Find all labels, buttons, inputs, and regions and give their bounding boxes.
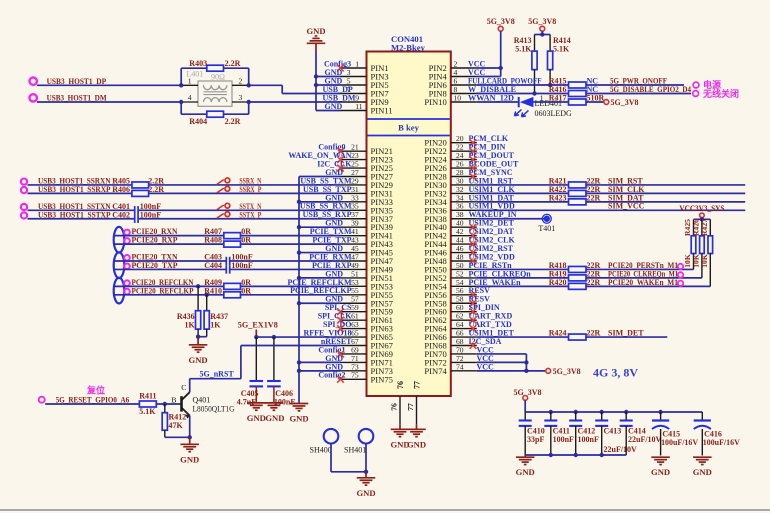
svg-text:2.2R: 2.2R — [148, 185, 164, 194]
svg-text:PIN74: PIN74 — [424, 366, 447, 376]
net label VCC pin4 — [468, 68, 486, 77]
wire VCC pins 70-74 — [477, 354, 546, 371]
differential pair marker SSTX_N — [217, 203, 230, 209]
junction VCC pin2 — [499, 66, 503, 70]
net label USIM1_RST pin30 — [469, 176, 514, 185]
resistor R426 — [691, 219, 704, 278]
pin stub 68 — [451, 345, 477, 347]
resistor R409 — [204, 278, 251, 290]
net label Config0 pin21 — [318, 143, 345, 152]
no-connect X pin24 — [470, 156, 477, 163]
junction GND bus row 39 — [297, 225, 301, 229]
port PCIE20_TXP — [124, 261, 177, 270]
wire pullup top bus — [535, 34, 551, 36]
port ring 5G_DISABLE_GPIO2_D4 — [693, 91, 699, 97]
junction GND bus row 45 — [297, 250, 301, 254]
net label RFFE_VIO18 pin65 — [304, 328, 352, 337]
pin stub 66 — [451, 336, 477, 338]
wire VCC pin2-pin4 — [477, 68, 501, 77]
svg-text:1K: 1K — [210, 321, 221, 330]
net label PCIE_TXP pin43 — [312, 236, 351, 245]
svg-text:5G_3V8: 5G_3V8 — [611, 98, 639, 107]
pin number 6 — [454, 76, 458, 85]
pin number 54 — [456, 278, 464, 287]
svg-text:0R: 0R — [241, 286, 251, 295]
pin stub 67 — [341, 345, 367, 347]
pin stub 3 — [341, 76, 367, 78]
wire SH401 to GND — [365, 443, 367, 472]
pin name PIN34 — [424, 197, 447, 207]
no-connect X pin42 — [470, 232, 477, 239]
pin name PIN23 — [371, 155, 393, 165]
pin stub 57 — [341, 302, 367, 304]
no-connect X pin58 — [470, 300, 477, 307]
no-connect X pin62 — [470, 317, 477, 324]
svg-text:22uF/10V: 22uF/10V — [628, 435, 662, 444]
svg-text:77: 77 — [413, 381, 422, 389]
wire USB3_HOST1_SSTXN row — [28, 209, 341, 211]
pin name PIN57 — [371, 298, 394, 308]
wire SIM_DET — [586, 336, 667, 338]
differential pair marker SSRX_N — [217, 178, 230, 184]
junction C405 top — [254, 335, 258, 339]
pin name PIN25 — [371, 163, 393, 173]
wire GND pin11 — [316, 110, 341, 112]
net label GND pin5 — [325, 76, 343, 85]
net label SPI_CLK pin61 — [318, 312, 353, 321]
junction base R412 — [163, 402, 167, 406]
pin stub 31 — [341, 192, 367, 194]
pin number 21 — [351, 143, 359, 152]
pin number 66 — [456, 328, 464, 337]
no-connect X pin40 — [470, 224, 477, 231]
wire GND pin33 — [299, 201, 341, 203]
power 5G_3V8 at pin74 — [546, 367, 581, 376]
net label PCIE_CLKREQn pin52 — [469, 269, 532, 278]
junction R436 bottom — [196, 335, 200, 339]
svg-text:T401: T401 — [538, 224, 555, 233]
connector CON401 M2-Bkey body — [367, 52, 451, 397]
svg-text:SIM_VCC: SIM_VCC — [608, 202, 645, 211]
pin number 69 — [351, 345, 359, 354]
wire R412 to emitter — [165, 436, 190, 438]
svg-text:5G_RESET_GPIO0_A6: 5G_RESET_GPIO0_A6 — [56, 395, 130, 404]
svg-text:0603LEDG: 0603LEDG — [535, 109, 573, 118]
svg-text:75: 75 — [351, 371, 359, 380]
pin stub 21 — [341, 150, 367, 152]
pin stub 58 — [451, 302, 477, 304]
svg-text:4G 3, 8V: 4G 3, 8V — [593, 366, 638, 380]
connector CON401 value M2-Bkey — [391, 43, 426, 53]
pin stub 54 — [451, 285, 477, 287]
svg-text:100uF/16V: 100uF/16V — [661, 438, 698, 447]
net label SSTX_P — [239, 210, 261, 219]
pin name 77 rotated — [413, 381, 422, 389]
junction bottom rail 575.7 — [574, 453, 578, 457]
power GND symbol SH — [356, 472, 375, 498]
pin name PIN4 — [429, 72, 448, 82]
resistor R421 — [549, 176, 601, 188]
junction choke right top — [247, 83, 251, 87]
pin stub 26 — [451, 167, 477, 169]
svg-text:C404: C404 — [204, 261, 222, 270]
resistor R416 — [549, 85, 586, 97]
wire FULLCARD_POWOFF — [477, 84, 569, 86]
twisted pair ellipse REFCLK — [114, 278, 125, 304]
pin number 43 — [351, 236, 359, 245]
net label PCIE20_CLKREQn_M1 — [608, 269, 678, 278]
pin number 73 — [351, 362, 359, 371]
wire GND pin71 — [299, 361, 341, 363]
pin number 60 — [456, 303, 464, 312]
sheet border bottom line — [0, 509, 770, 511]
pin number 2 — [454, 59, 458, 68]
svg-text:5G_3V8: 5G_3V8 — [487, 17, 515, 26]
annotation dianyuan — [703, 79, 721, 90]
capacitor C414 — [620, 410, 662, 455]
pin stub 59 — [341, 311, 367, 313]
net label PCIE_RXM pin47 — [309, 252, 352, 261]
choke pin number 4 — [188, 93, 192, 102]
power GND symbol C406 — [265, 386, 285, 423]
net label USB_SS_TXP pin31 — [303, 185, 352, 194]
no-connect X pin44 — [470, 241, 477, 248]
pin stub 51 — [341, 277, 367, 279]
wire PCIE20_CLKREQn_M1 — [586, 277, 702, 279]
pin stub 4 — [451, 76, 477, 78]
wire GND pin45 — [299, 252, 341, 254]
no-connect X pin21 — [337, 148, 344, 155]
net label PCIE_REFCLKP pin55 — [290, 286, 351, 295]
power 5G_3V8 symbol A — [487, 17, 515, 68]
net label USIM2_VDD pin48 — [469, 252, 515, 261]
pin name PIN37 — [371, 214, 394, 224]
LED401 designator — [535, 99, 563, 108]
pin stub 22 — [451, 150, 477, 152]
pin stub 36 — [451, 209, 477, 211]
pin number 68 — [456, 337, 464, 346]
power 5G_3V8 symbol B — [528, 17, 556, 34]
pin number 51 — [351, 269, 359, 278]
pin number 77 rotated — [406, 403, 415, 411]
pin stub 70 — [451, 353, 477, 355]
svg-text:SH401: SH401 — [344, 445, 366, 454]
wire GND pin27 — [299, 176, 341, 178]
svg-text:100uF/16V: 100uF/16V — [703, 438, 740, 447]
wire SIM_CLK — [586, 192, 745, 194]
wire SH400 to GND — [331, 443, 366, 472]
port USB3_HOST1_SSRXN — [21, 176, 111, 185]
svg-text:10K: 10K — [700, 254, 709, 268]
pin name PIN69 — [371, 349, 393, 359]
wire GND pin51 — [299, 277, 341, 279]
resistor R407 — [204, 227, 251, 239]
net label FULLCARD_POWOFF — [468, 76, 542, 85]
pin name PIN70 — [424, 349, 446, 359]
pin stub 11 — [341, 110, 367, 112]
pin stub 30 — [451, 184, 477, 186]
pin number 62 — [456, 312, 464, 321]
pin name PIN67 — [371, 341, 394, 351]
annotation 4G 3.8V — [593, 366, 638, 380]
power GND symbol C415 — [651, 457, 670, 477]
pin number 50 — [456, 261, 464, 270]
wire USB3_HOST1_SSRXN row — [28, 184, 341, 186]
pin number 59 — [351, 303, 359, 312]
pin name PIN53 — [371, 281, 393, 291]
resistor R418 — [549, 261, 601, 273]
svg-text:22uF/10V: 22uF/10V — [604, 445, 638, 454]
no-connect X pin68 — [470, 342, 477, 349]
wire cap bank bottom rail — [525, 454, 626, 456]
wire R411 to base — [156, 403, 181, 405]
net label WWAN_12D — [468, 93, 514, 102]
pin number 55 — [351, 286, 359, 295]
resistor R403 bypass wire — [181, 68, 249, 85]
pin stub 5 — [341, 84, 367, 86]
svg-text:5.1K: 5.1K — [553, 45, 570, 54]
svg-text:3: 3 — [239, 93, 243, 102]
net label VCC pin72 — [477, 354, 495, 363]
pin number 24 — [456, 151, 464, 160]
pin number 7 — [347, 85, 351, 94]
net label USB_SS_RXM pin35 — [300, 202, 352, 211]
svg-text:22R: 22R — [587, 278, 601, 287]
wire PCIE20_PERSTn_M1 — [586, 268, 694, 270]
pin name PIN64 — [424, 324, 447, 334]
net label I2C_SDA pin68 — [469, 337, 502, 346]
net label SPI_DIN pin60 — [469, 303, 500, 312]
svg-text:1: 1 — [188, 77, 192, 86]
svg-text:R420: R420 — [549, 278, 567, 287]
pin number 5 — [347, 76, 351, 85]
pin stub 6 — [451, 84, 477, 86]
pin number 38 — [456, 210, 464, 219]
pin stub 69 — [341, 353, 367, 355]
svg-text:GND: GND — [693, 467, 712, 477]
net label SPI_CS pin59 — [325, 303, 352, 312]
pin number 9 — [355, 93, 359, 102]
svg-text:5G_3V8: 5G_3V8 — [528, 17, 556, 26]
pin name PIN9 — [371, 97, 389, 107]
pin name PIN36 — [424, 205, 447, 215]
pin number 37 — [351, 210, 359, 219]
capacitor C416 — [694, 412, 740, 456]
pin stub 64 — [451, 328, 477, 330]
power 5G_3V8 cap bank — [514, 388, 542, 412]
annotation wuxianguanbi — [702, 88, 739, 99]
wire GND bus lower vertical — [298, 177, 300, 403]
svg-text:1: 1 — [540, 93, 544, 102]
capacitor C411 — [544, 410, 574, 455]
pin name PIN24 — [424, 155, 447, 165]
svg-text:74: 74 — [456, 362, 464, 371]
net label SSTX_N — [239, 202, 261, 211]
pin stub 9 — [341, 101, 367, 103]
pin number 33 — [351, 193, 359, 202]
capacitor C402 — [112, 210, 161, 223]
capacitor C413 — [595, 410, 637, 455]
pin name PIN48 — [424, 256, 446, 266]
wire W_DISBALE — [477, 93, 569, 95]
junction GND bus row 73 — [297, 369, 301, 373]
no-connect X pin46 — [470, 249, 477, 256]
pin name PIN75 — [371, 374, 393, 384]
pin stub 27 — [341, 176, 367, 178]
pin number 46 — [456, 244, 464, 253]
no-connect X pin61 — [337, 317, 344, 324]
wire GND pin39 — [299, 226, 341, 228]
svg-text:R404: R404 — [189, 117, 207, 126]
net label SSRX_P — [239, 185, 261, 194]
net label SIM_DAT — [608, 193, 644, 202]
pin name PIN62 — [424, 315, 446, 325]
pin number 25 — [351, 159, 359, 168]
svg-text:VCC3V3_SYS: VCC3V3_SYS — [679, 204, 724, 213]
pin number 71 — [351, 354, 359, 363]
pin stub 53 — [341, 285, 367, 287]
svg-text:R403: R403 — [189, 59, 207, 68]
pin name PIN29 — [371, 180, 393, 190]
net label USIM2_DET pin40 — [469, 219, 515, 228]
no-connect X pin1 — [337, 65, 344, 72]
svg-text:100nF: 100nF — [140, 210, 161, 219]
junction pullup bus — [540, 32, 544, 36]
pin stub 7 — [341, 93, 367, 95]
port 5G_RESET_GPIO0_A6 — [39, 395, 130, 404]
power GND symbol pin76 — [390, 424, 409, 449]
svg-text:L8050QLT1G: L8050QLT1G — [193, 405, 235, 414]
pin number 72 — [456, 354, 464, 363]
wire PCIE20_RXN row — [114, 235, 341, 237]
svg-text:GND: GND — [325, 102, 343, 111]
svg-text:GND: GND — [189, 355, 208, 365]
pin stub 72 — [451, 361, 477, 363]
svg-text:5G_DISABLE_GPIO2_D4: 5G_DISABLE_GPIO2_D4 — [610, 85, 691, 94]
pin number 47 — [351, 252, 359, 261]
wire SIM_RST — [586, 184, 745, 186]
port PCIE20_REFCLKN — [124, 278, 193, 287]
no-connect X pin26 — [470, 165, 477, 172]
pin name PIN44 — [424, 239, 447, 249]
pin number 61 — [351, 312, 359, 321]
pin name PIN3 — [371, 72, 389, 82]
no-connect X pin23 — [337, 156, 344, 163]
junction choke right bottom — [247, 100, 251, 104]
net label VCC pin2 — [468, 59, 486, 68]
power GND symbol C416 — [693, 457, 712, 477]
port ring PCIE20_PERSTn_M1 — [678, 264, 683, 269]
svg-text:GND: GND — [516, 467, 535, 477]
pin name PIN45 — [371, 248, 393, 258]
no-connect X pin48 — [470, 258, 477, 265]
pin stub 29 — [341, 184, 367, 186]
pin number 65 — [351, 328, 359, 337]
differential pair marker SSRX_P — [217, 186, 230, 192]
net label RESV pin56 — [469, 286, 491, 295]
net label PCIE20_WAKEn_M1 — [608, 278, 678, 287]
pin stub 49 — [341, 268, 367, 270]
pin number 56 — [456, 286, 464, 295]
svg-text:2.2R: 2.2R — [225, 117, 241, 126]
power GND symbol R436 R437 — [189, 337, 208, 365]
net label PCM_DIN pin22 — [469, 143, 506, 152]
pin name PIN40 — [424, 222, 446, 232]
pin stub 47 — [341, 260, 367, 262]
pin stub 77 — [416, 396, 418, 424]
pin name PIN52 — [424, 273, 446, 283]
power GND symbol Q401 — [180, 437, 199, 464]
pin name PIN61 — [371, 315, 393, 325]
pin name PIN32 — [424, 188, 446, 198]
pin name PIN50 — [424, 264, 446, 274]
pin stub 33 — [341, 201, 367, 203]
wire SIM_DAT — [586, 201, 745, 203]
net label USB_DM — [323, 93, 356, 102]
pin name PIN22 — [424, 146, 446, 156]
pin number 48 — [456, 252, 464, 261]
pin number 40 — [456, 219, 464, 228]
choke pin number 1 — [188, 77, 192, 86]
svg-text:GND: GND — [247, 413, 266, 423]
wire pin30 to R421 — [477, 184, 569, 186]
capacitor C403 — [204, 253, 253, 266]
svg-text:M2-Bkey: M2-Bkey — [391, 43, 426, 53]
capacitor C405 — [237, 337, 263, 406]
net label VCC pin74 — [477, 362, 495, 371]
net label USIM1_VDD pin36 — [469, 202, 515, 211]
pin number 76 rotated — [390, 403, 399, 411]
junction GND bus pin3 — [314, 74, 318, 78]
pin number 67 — [351, 337, 359, 346]
junction GND bus pin5 — [314, 83, 318, 87]
power 5G_3V8 at R417 — [604, 98, 639, 107]
net label USIM1_DAT pin34 — [469, 193, 515, 202]
pin name PIN60 — [424, 307, 446, 317]
svg-text:1: 1 — [355, 59, 359, 68]
pin number 57 — [351, 295, 359, 304]
pin number 27 — [351, 168, 359, 177]
pin name PIN49 — [371, 264, 393, 274]
net label USIM2_RST pin46 — [469, 244, 514, 253]
net label PCIE_RSTn pin50 — [469, 261, 513, 270]
resistor R403 — [189, 59, 240, 71]
pin number 4 — [454, 68, 458, 77]
port USB3_HOST1_SSTXN — [21, 202, 111, 211]
wire SIM_VCC — [477, 209, 745, 211]
svg-text:PCIE20_WAKEn_M1: PCIE20_WAKEn_M1 — [608, 278, 678, 287]
test point T401 — [538, 214, 555, 233]
net label PCIE_TXM pin41 — [310, 227, 352, 236]
pin name PIN47 — [371, 256, 394, 266]
net label GND pin57 — [325, 295, 343, 304]
svg-text:R417: R417 — [549, 93, 567, 102]
net label Config1 pin69 — [318, 345, 345, 354]
pin number 74 — [456, 362, 464, 371]
svg-text:SSRX_P: SSRX_P — [239, 185, 261, 194]
svg-text:22R: 22R — [587, 193, 601, 202]
LED LED401 — [515, 97, 534, 117]
power GND symbol top — [306, 26, 325, 51]
pin number 23 — [351, 151, 359, 160]
pin number 58 — [456, 295, 464, 304]
wire R417 to 5G_3V8 — [586, 101, 604, 103]
svg-text:5G_3V8: 5G_3V8 — [553, 367, 581, 376]
mounting hole SH401 — [344, 429, 373, 454]
resistor R413 — [514, 35, 537, 94]
svg-text:GND: GND — [356, 488, 375, 498]
wire USB3_HOST1_DP — [37, 84, 181, 86]
